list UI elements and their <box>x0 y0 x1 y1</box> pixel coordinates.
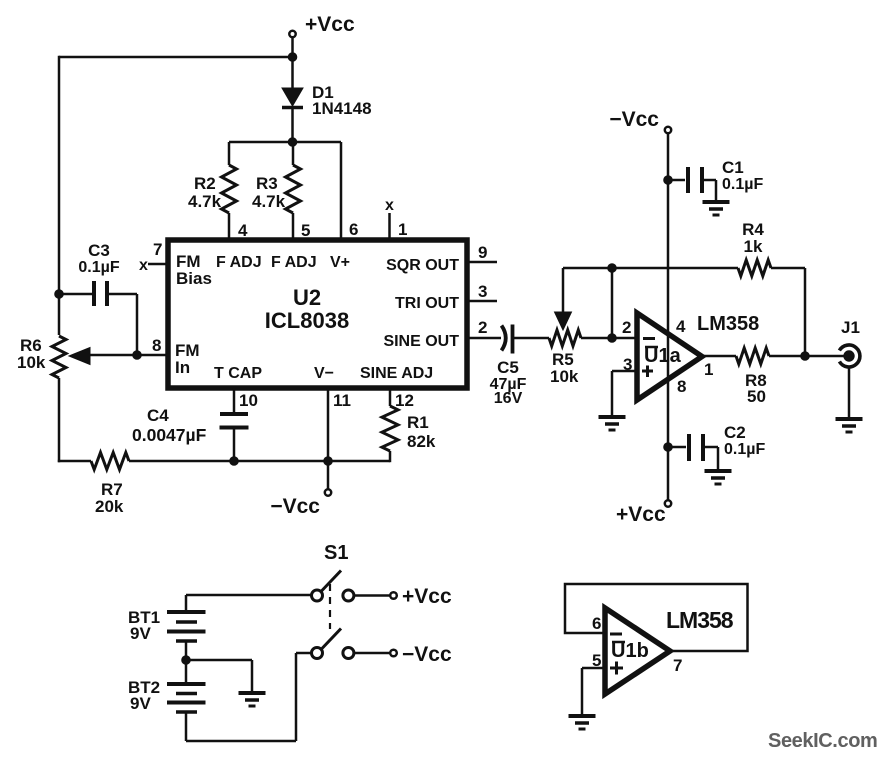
svg-text:x: x <box>139 257 148 274</box>
svg-text:1: 1 <box>398 220 407 239</box>
svg-text:0.1µF: 0.1µF <box>724 441 765 458</box>
resistor R2 4.7k <box>188 142 237 240</box>
SeekIC.com watermark <box>768 730 877 752</box>
U2 reference designator <box>293 285 321 310</box>
svg-text:C1: C1 <box>722 158 744 177</box>
U2 label T CAP (pin 10) <box>214 365 262 382</box>
svg-text:4: 4 <box>676 317 686 336</box>
svg-text:−Vcc: −Vcc <box>609 108 659 131</box>
svg-text:9V: 9V <box>130 694 151 713</box>
wire: J1 shell to ground <box>848 367 851 420</box>
svg-text:7: 7 <box>673 656 682 675</box>
ground (U1b pin 5) <box>569 716 596 729</box>
svg-text:C4: C4 <box>147 406 169 425</box>
-Vcc supply terminal (top right) <box>609 108 671 133</box>
svg-text:−Vcc: −Vcc <box>402 643 452 666</box>
node: junction feedback tap to pin 2 <box>608 334 617 343</box>
wire: U1a output to R8 <box>702 355 736 358</box>
switch S1 section a <box>312 571 354 602</box>
svg-text:6: 6 <box>349 220 358 239</box>
svg-text:5: 5 <box>301 221 310 240</box>
svg-text:6: 6 <box>592 614 601 633</box>
pin 3 TRI OUT stub <box>467 282 497 301</box>
svg-text:1N4148: 1N4148 <box>312 99 372 118</box>
wire: +Vcc terminal down to D1 anode <box>291 37 294 88</box>
svg-text:2: 2 <box>622 318 631 337</box>
svg-text:4: 4 <box>238 221 248 240</box>
svg-text:C3: C3 <box>88 241 110 260</box>
U2 label FM Bias (pin 7) <box>176 252 212 288</box>
U2 label F ADJ (pin 5) <box>271 254 317 271</box>
U2 label SQR OUT (pin 9) <box>386 257 459 274</box>
wire: C3 right plate down to pin 8 wire <box>136 294 139 355</box>
U2 label F ADJ (pin 4) <box>216 254 262 271</box>
U2 label SINE ADJ (pin 12) <box>360 365 433 382</box>
resistor R3 4.7k <box>252 142 301 240</box>
svg-text:R1: R1 <box>407 413 429 432</box>
wire: feedback line to R4 <box>563 267 738 270</box>
ground (J1) <box>836 419 863 432</box>
pin 2 SINE OUT wire to C5 <box>467 318 501 338</box>
svg-text:8: 8 <box>152 336 161 355</box>
node: junction D1 to R2/R3 rail <box>288 138 297 147</box>
ground (U1a pin 3) <box>599 417 626 430</box>
switch gang dashed link <box>329 584 331 629</box>
pin 4 number label <box>238 221 248 240</box>
svg-text:4.7k: 4.7k <box>188 192 222 211</box>
svg-text:C2: C2 <box>724 423 746 442</box>
wire: pin 6 V+ from rail <box>340 142 343 240</box>
svg-text:1k: 1k <box>744 237 763 256</box>
wiper arrow onto R5 <box>555 268 572 330</box>
wire: switch b to -Vcc terminal <box>354 652 390 655</box>
wire: U1b feedback loop <box>565 584 748 651</box>
U1a pin 8 label <box>677 377 686 396</box>
-Vcc terminal (switch output) <box>390 643 452 666</box>
pin 1 number label <box>398 220 407 239</box>
LM358 label (U1b) <box>666 607 734 633</box>
capacitor C2 0.1uF <box>668 423 765 471</box>
svg-text:10k: 10k <box>17 353 46 372</box>
node: junction C1 on power rail <box>664 176 673 185</box>
+Vcc supply terminal (top) <box>289 13 355 37</box>
U1a pin 3 label <box>623 355 632 374</box>
wire: battery midpoint to ground <box>186 660 252 693</box>
node: junction left rail at C3 <box>55 290 64 299</box>
node: junction C3 tap on pin 8 wire <box>133 351 142 360</box>
node: junction output to R4/J1 <box>801 352 810 361</box>
potentiometer R6 10k <box>17 336 90 378</box>
wire: switch a to +Vcc terminal <box>354 594 390 597</box>
wire: BT2 - to switch 2 pole <box>186 653 312 741</box>
switch S1 section b <box>312 629 354 659</box>
svg-text:0.0047µF: 0.0047µF <box>132 425 207 445</box>
resistor R1 82k <box>382 388 436 462</box>
wire: bottom rail R7 to R1 <box>129 460 390 463</box>
resistor R4 1k <box>738 220 771 276</box>
svg-text:U1b: U1b <box>611 640 649 662</box>
svg-text:R3: R3 <box>256 174 278 193</box>
svg-text:ICL8038: ICL8038 <box>265 308 349 333</box>
wire: U1a pin 3 to ground <box>612 371 637 417</box>
+Vcc supply terminal (bottom right) <box>616 500 671 526</box>
ground (C2) <box>705 471 732 484</box>
U1a pin 4 label <box>676 317 686 336</box>
svg-text:V+: V+ <box>330 254 350 271</box>
ground (C1) <box>703 202 730 215</box>
svg-text:C5: C5 <box>497 358 519 377</box>
wire: pin 11 V- down <box>328 388 351 461</box>
resistor R7 20k <box>91 453 129 517</box>
pin 8 wire from wiper to FM In <box>88 336 168 355</box>
svg-text:V−: V− <box>314 365 334 382</box>
diode D1 1N4148 <box>282 83 372 118</box>
svg-text:J1: J1 <box>841 318 860 337</box>
svg-text:0.1µF: 0.1µF <box>78 259 119 276</box>
node: junction C4 on bottom rail <box>230 457 239 466</box>
svg-text:+Vcc: +Vcc <box>402 585 452 608</box>
U1b pin 7 label <box>673 656 682 675</box>
wire: R5 to U1a pin 2 <box>581 337 637 340</box>
node: junction feedback line <box>608 264 617 273</box>
U1b pin 6 label <box>592 614 601 633</box>
svg-text:TRI OUT: TRI OUT <box>395 295 459 312</box>
svg-text:3: 3 <box>478 282 487 301</box>
wire: horizontal rail feeding R2 R3 and pin 6 <box>229 141 341 144</box>
pin 7 stub with x test point <box>139 240 168 274</box>
svg-text:10k: 10k <box>550 367 579 386</box>
svg-text:SQR OUT: SQR OUT <box>386 257 459 274</box>
svg-text:−Vcc: −Vcc <box>270 495 320 518</box>
svg-text:9: 9 <box>478 243 487 262</box>
svg-text:x: x <box>385 197 394 214</box>
U1b pin 5 label <box>592 651 601 670</box>
op-amp U1b LM358 <box>605 608 670 694</box>
ground (battery midpoint) <box>239 693 266 706</box>
svg-text:9V: 9V <box>130 624 151 643</box>
svg-text:SINE OUT: SINE OUT <box>383 333 459 350</box>
svg-text:LM358: LM358 <box>697 313 759 335</box>
svg-text:8: 8 <box>677 377 686 396</box>
wire: bottom rail left segment <box>58 460 91 463</box>
svg-text:U2: U2 <box>293 285 321 310</box>
pin 1 stub with x test point <box>385 197 394 240</box>
U2 part number ICL8038 <box>265 308 349 333</box>
svg-text:16V: 16V <box>494 390 523 407</box>
pin 9 SQR OUT stub <box>467 243 497 262</box>
svg-text:10: 10 <box>239 391 258 410</box>
wire: left rail R6 bottom to bottom rail <box>58 378 61 462</box>
U2 label V&#8722; (pin 11) <box>314 365 334 382</box>
wire: feedback tap vertical <box>611 268 614 338</box>
svg-text:F ADJ: F ADJ <box>216 254 262 271</box>
capacitor C3 0.1uF <box>59 241 137 306</box>
svg-text:7: 7 <box>153 240 162 259</box>
wire: D1 cathode down to R2/R3 rail <box>291 107 294 142</box>
battery BT1 9V <box>128 595 206 660</box>
U2 label V+ (pin 6) <box>330 254 350 271</box>
svg-text:F ADJ: F ADJ <box>271 254 317 271</box>
svg-text:2: 2 <box>478 318 487 337</box>
svg-text:12: 12 <box>395 391 414 410</box>
wire: BT1 + to switch pole <box>186 594 312 597</box>
svg-text:82k: 82k <box>407 432 436 451</box>
wire: power rail -Vcc to +Vcc through U1a <box>667 133 670 500</box>
svg-text:LM358: LM358 <box>666 607 734 633</box>
wire: left rail vertical (top to R6) <box>58 56 61 335</box>
U1a pin 1 label <box>704 360 713 379</box>
svg-text:Bias: Bias <box>176 269 212 288</box>
wire: R8 to J1 <box>769 355 849 358</box>
svg-text:20k: 20k <box>95 497 124 516</box>
svg-text:S1: S1 <box>324 542 348 564</box>
switch S1 label <box>324 542 348 564</box>
-Vcc supply terminal (bottom of U2) <box>270 461 331 518</box>
svg-text:U1a: U1a <box>644 345 682 367</box>
pin 10 number label <box>239 391 258 410</box>
U1a pin 2 label <box>622 318 631 337</box>
pin 5 number label <box>301 221 310 240</box>
connector J1 <box>839 318 860 367</box>
wire: U1b pin 5 to ground <box>582 668 605 716</box>
node: junction C2 on power rail <box>664 443 673 452</box>
svg-text:In: In <box>175 358 190 377</box>
svg-text:0.1µF: 0.1µF <box>722 176 763 193</box>
svg-text:SINE ADJ: SINE ADJ <box>360 365 433 382</box>
capacitor C1 0.1uF <box>668 158 763 202</box>
svg-text:+Vcc: +Vcc <box>305 13 355 36</box>
svg-text:T CAP: T CAP <box>214 365 262 382</box>
battery BT2 9V <box>128 660 206 741</box>
+Vcc terminal (switch output) <box>390 585 452 608</box>
capacitor C4 0.0047uF <box>132 388 249 461</box>
op IC U2 ICL8038 body <box>168 240 467 388</box>
svg-text:+Vcc: +Vcc <box>616 503 666 526</box>
svg-text:R2: R2 <box>194 174 216 193</box>
wire: C5 to R5 <box>513 337 550 340</box>
U2 label TRI OUT (pin 3) <box>395 295 459 312</box>
svg-text:SeekIC.com: SeekIC.com <box>768 730 877 752</box>
svg-text:50: 50 <box>747 387 766 406</box>
LM358 label (U1a) <box>697 313 759 335</box>
U2 label FM In (pin 8) <box>175 341 200 377</box>
op-amp U1a LM358 <box>637 313 702 400</box>
resistor R8 50 <box>736 348 769 406</box>
svg-text:4.7k: 4.7k <box>252 192 286 211</box>
node: +Vcc rail junction <box>288 53 297 62</box>
pin 6 number label <box>349 220 358 239</box>
wire: R4 to output node <box>771 268 805 356</box>
node: junction pin 11 on bottom rail <box>324 457 333 466</box>
potentiometer R5 10k <box>549 330 581 386</box>
node: junction between BT1 and BT2 <box>182 656 191 665</box>
U2 label SINE OUT (pin 2) <box>383 333 459 350</box>
capacitor C5 47uF 16V (polarized) <box>490 325 527 408</box>
svg-text:11: 11 <box>333 391 351 410</box>
svg-text:1: 1 <box>704 360 713 379</box>
wire: +Vcc junction to left rail <box>59 56 293 59</box>
